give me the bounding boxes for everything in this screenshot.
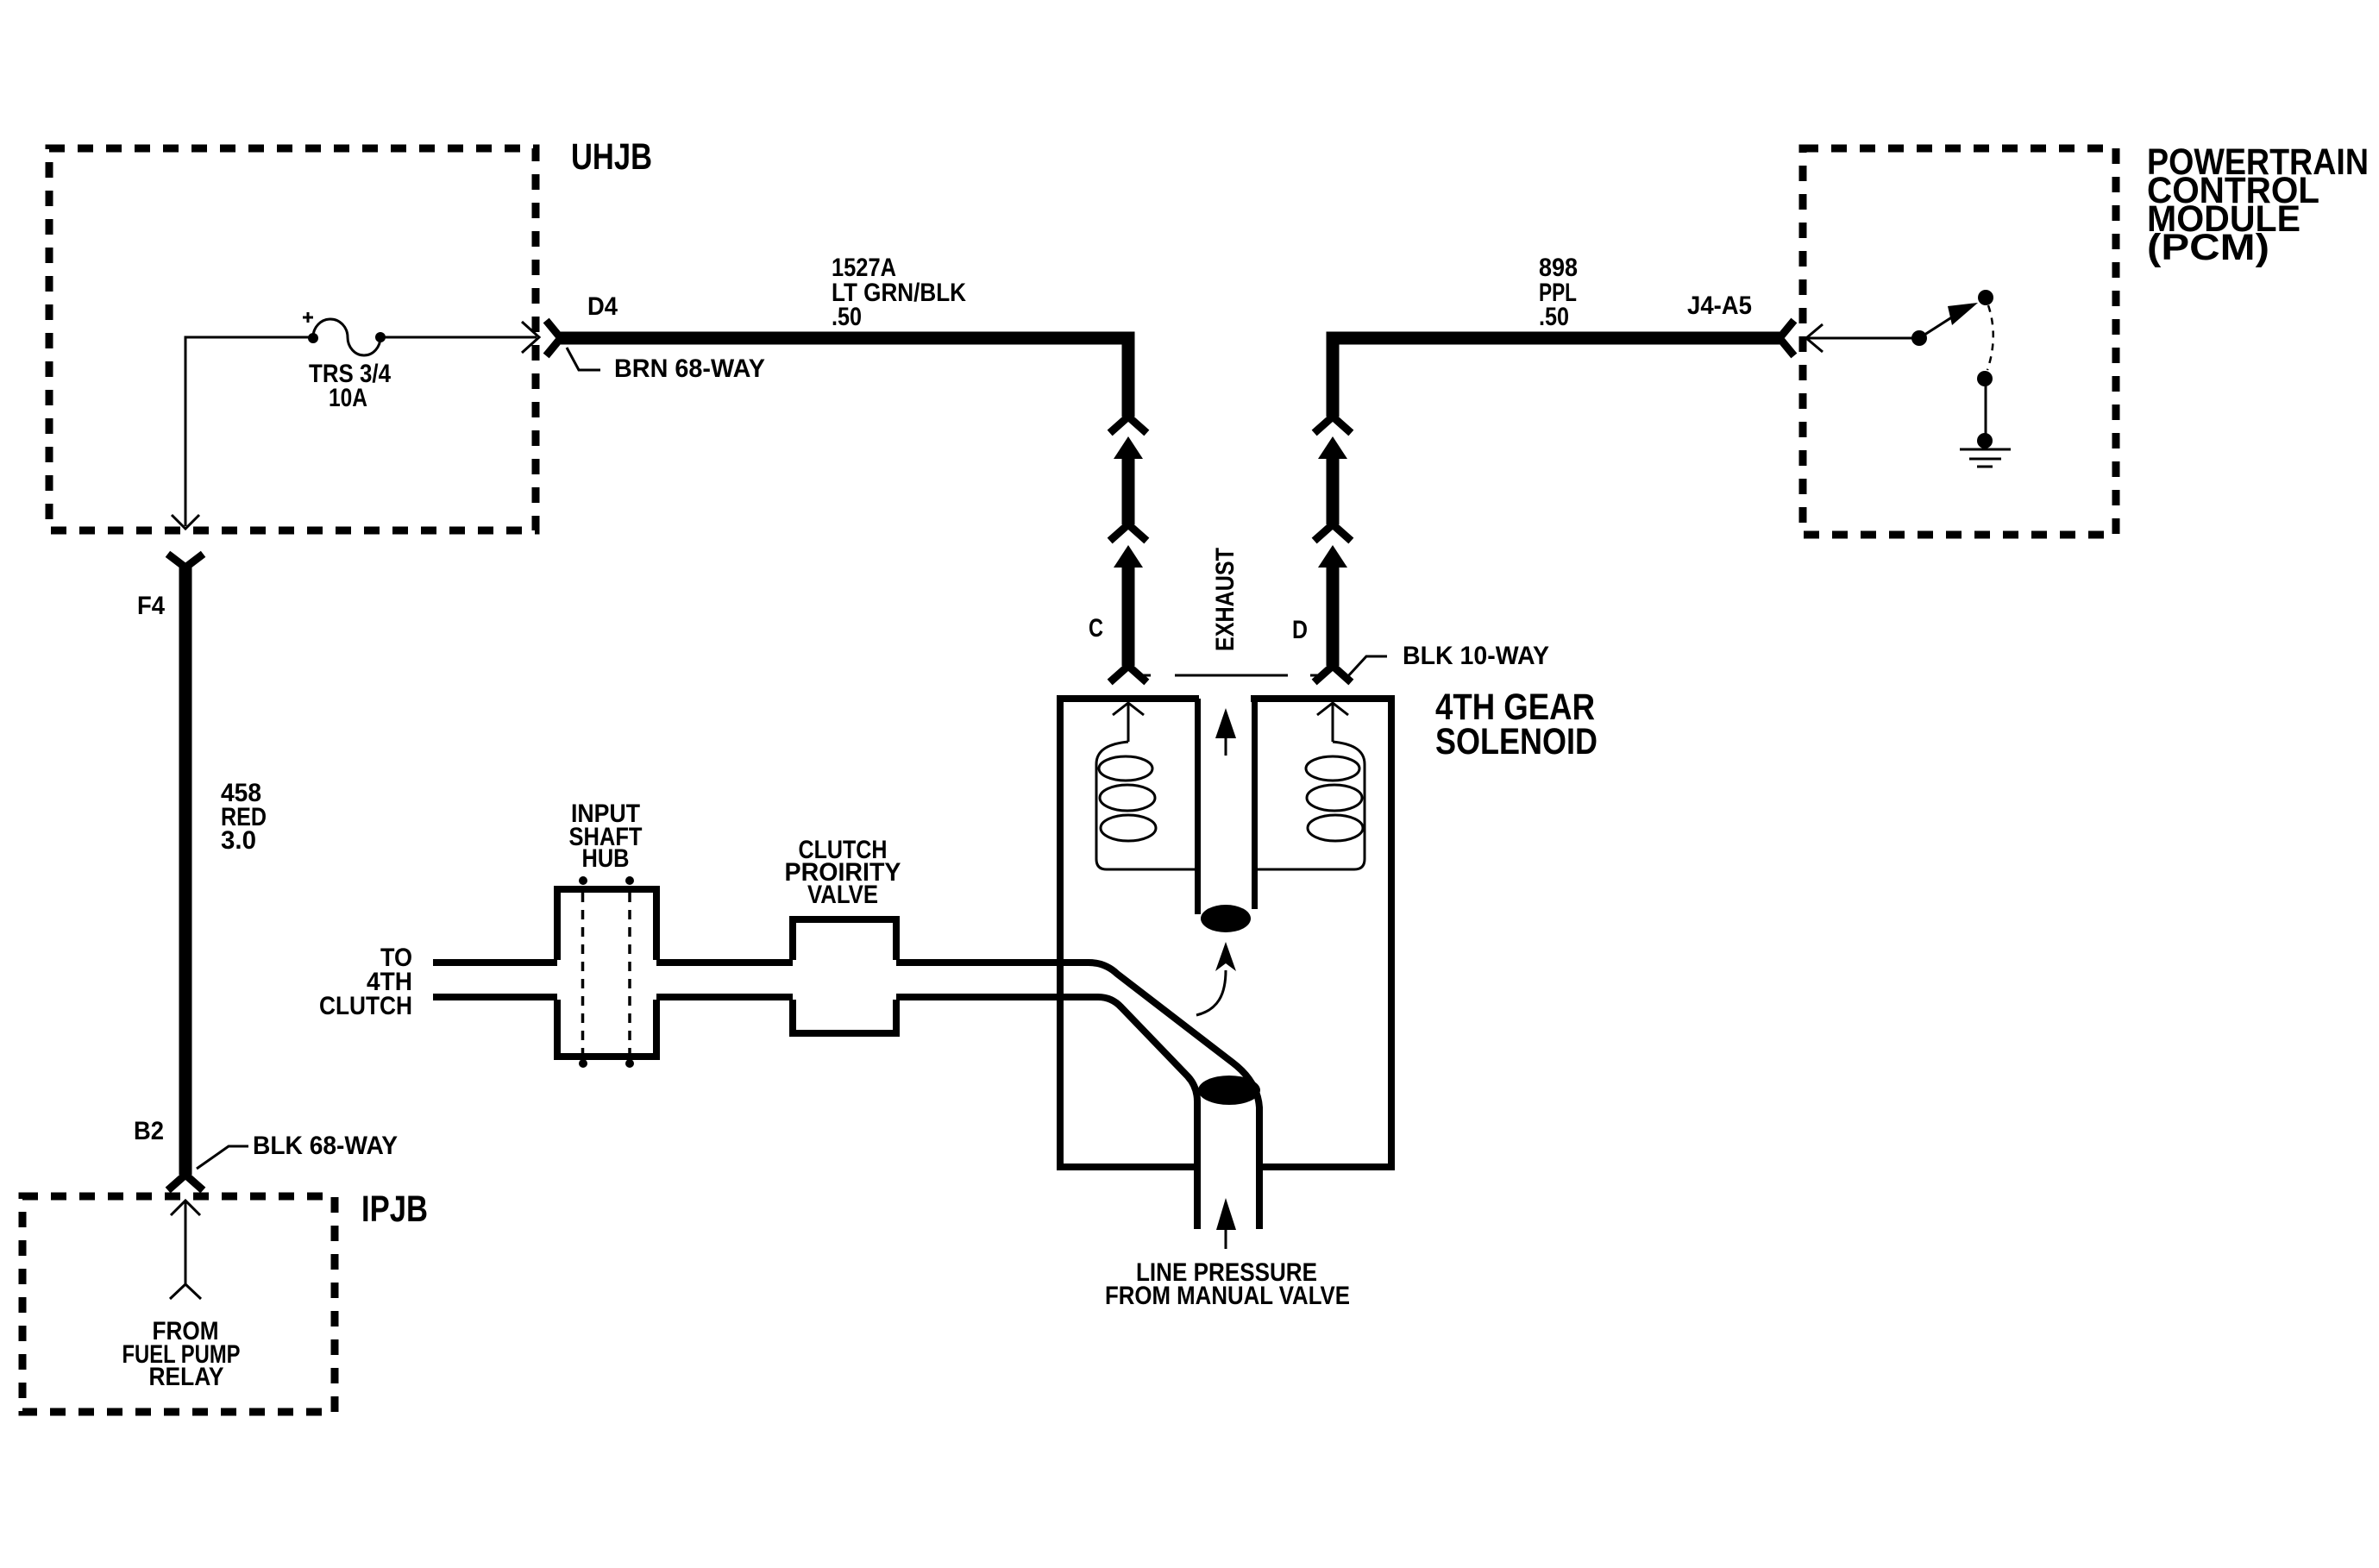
solenoid body 4TH GEAR SOLENOID	[1057, 695, 1395, 1170]
svg-text:C: C	[1089, 614, 1103, 643]
svg-text:3.0: 3.0	[221, 826, 256, 855]
pointer to BLK 10-WAY	[1346, 656, 1387, 678]
junction box UHJB (dashed)	[49, 148, 536, 530]
inline connector fork 1 on D branch	[1317, 417, 1348, 430]
svg-text:BLK 10-WAY: BLK 10-WAY	[1403, 642, 1549, 670]
hydraulic pipe to 4th clutch (lower wall)	[433, 997, 1197, 1229]
junction box IPJB (dashed)	[22, 1196, 335, 1412]
switch common node	[1911, 330, 1927, 346]
switch blade	[1919, 304, 1972, 338]
inline connector arrow 2 on C branch	[1114, 545, 1143, 568]
arrow into F4 (open head at UHJB bottom edge)	[172, 515, 199, 529]
coil C winding	[1096, 742, 1195, 869]
svg-text:.50: .50	[1539, 303, 1569, 331]
fuse TRS 3/4 10A	[313, 319, 380, 355]
svg-text:HUB: HUB	[582, 844, 630, 873]
svg-text:(PCM): (PCM)	[2147, 227, 2269, 268]
connector fork at F4	[171, 556, 200, 568]
wire segment C branch lower	[1122, 564, 1135, 666]
switch contact lower	[1977, 371, 1993, 386]
arrow at D4 (open head)	[522, 322, 539, 353]
connector fork at J4-A5	[1780, 323, 1792, 353]
svg-text:UHJB: UHJB	[571, 136, 652, 178]
inline connector fork 1 on C branch	[1113, 417, 1144, 430]
switch driver inside PCM: arrow to J4-A5	[1806, 324, 1919, 352]
polarity + mark	[303, 312, 313, 323]
hub shaft dashed lines	[583, 893, 631, 1053]
inline connector fork 2 on D branch	[1317, 524, 1348, 538]
exhaust valve seat (filled)	[1201, 905, 1251, 932]
ground node	[1977, 433, 1993, 448]
svg-text:IPJB: IPJB	[361, 1189, 428, 1230]
component CLUTCH PROIRITY VALVE	[789, 916, 900, 1033]
wire segment C branch mid	[1122, 455, 1135, 524]
wire from fuse to UHJB bottom edge	[185, 337, 313, 526]
hub pins (dots)	[579, 876, 587, 885]
module PCM (dashed box)	[1803, 148, 2116, 535]
svg-text:BLK 68-WAY: BLK 68-WAY	[253, 1132, 398, 1160]
inline connector arrow 1 on C branch	[1114, 436, 1143, 459]
svg-text:FROM MANUAL VALVE: FROM MANUAL VALVE	[1105, 1282, 1350, 1310]
line pressure inlet arrow	[1225, 1229, 1227, 1249]
pointer to BLK 68-WAY	[197, 1146, 248, 1169]
svg-text:.50: .50	[832, 303, 862, 331]
coil D winding	[1258, 742, 1365, 869]
connector fork at solenoid pin D	[1317, 666, 1348, 680]
inline connector arrow 1 on D branch	[1318, 436, 1347, 459]
hydraulic pipe to 4th clutch (upper wall)	[433, 963, 1259, 1229]
10-way connector face line	[1140, 674, 1321, 677]
dashed travel arc	[1987, 305, 1993, 370]
svg-text:D: D	[1292, 616, 1308, 644]
connector fork at B2	[171, 1175, 200, 1188]
svg-text:D4: D4	[587, 292, 618, 321]
switch contact upper	[1978, 290, 1993, 305]
svg-text:SOLENOID: SOLENOID	[1435, 721, 1598, 762]
connector fork at solenoid pin C	[1113, 666, 1144, 680]
svg-text:BRN 68-WAY: BRN 68-WAY	[614, 354, 765, 383]
svg-text:RELAY: RELAY	[149, 1363, 224, 1391]
pointer to BRN 68-WAY	[567, 348, 600, 370]
wire to ground	[1985, 384, 1987, 434]
coil C winding lead arrow	[1113, 703, 1144, 742]
wire 898 PPL (thick)	[1333, 338, 1780, 417]
wire 1527A LT GRN/BLK (thick)	[561, 338, 1128, 417]
inline connector fork 2 on C branch	[1113, 524, 1144, 538]
inline connector arrow 2 on D branch	[1318, 545, 1347, 568]
svg-text:J4-A5: J4-A5	[1687, 292, 1752, 320]
svg-text:CLUTCH: CLUTCH	[319, 992, 412, 1020]
svg-text:EXHAUST: EXHAUST	[1211, 548, 1240, 651]
feed arrow from fuel pump relay	[170, 1201, 201, 1299]
curved flow arrow	[1196, 970, 1226, 1015]
switch blade arrowhead	[1948, 303, 1978, 325]
wire segment D branch mid	[1327, 455, 1340, 524]
svg-text:B2: B2	[134, 1117, 164, 1145]
coil D winding lead arrow	[1317, 703, 1348, 742]
exhaust channel walls	[1198, 699, 1255, 914]
exhaust flow arrow	[1225, 736, 1227, 756]
wire segment D branch lower	[1327, 564, 1340, 666]
svg-text:F4: F4	[137, 592, 165, 620]
line pressure valve seat (filled)	[1198, 1076, 1260, 1105]
wire 458 RED (thick vertical)	[179, 568, 192, 1175]
component INPUT SHAFT HUB	[554, 886, 660, 1060]
connector fork at D4	[549, 323, 561, 353]
ground symbol	[1960, 449, 2011, 467]
svg-text:VALVE: VALVE	[807, 881, 878, 909]
wire fuse to D4 arrow	[380, 336, 537, 339]
svg-text:10A: 10A	[329, 384, 367, 412]
